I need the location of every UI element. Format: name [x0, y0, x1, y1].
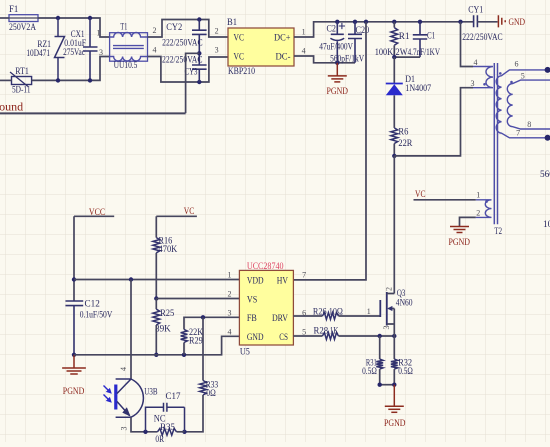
svg-text:1: 1 — [302, 27, 306, 36]
svg-text:CY2: CY2 — [166, 23, 182, 33]
capacitor CY3 — [192, 53, 207, 82]
svg-text:C2: C2 — [327, 24, 337, 34]
svg-text:4: 4 — [474, 58, 478, 67]
node R29 bottom on rail — [182, 353, 186, 357]
node R31 bottom — [378, 383, 382, 387]
svg-text:4: 4 — [119, 367, 128, 371]
svg-text:10D471: 10D471 — [26, 49, 50, 59]
svg-text:VC: VC — [234, 33, 245, 43]
power symbol PGND under T2 aux — [450, 226, 469, 228]
svg-text:GND: GND — [509, 18, 526, 28]
svg-text:UU10.5: UU10.5 — [114, 61, 138, 71]
svg-text:HV: HV — [277, 276, 288, 286]
svg-text:DC-: DC- — [276, 52, 291, 62]
wire opto collector riser — [130, 280, 132, 380]
svg-text:R26: R26 — [313, 308, 327, 318]
svg-text:CY1: CY1 — [468, 5, 483, 15]
wire VC stub — [156, 215, 197, 217]
resistor R26 — [322, 313, 338, 320]
wire T2 pin3 to R6 junction and Q3 drain — [394, 88, 473, 156]
svg-text:R6: R6 — [398, 128, 408, 138]
svg-text:C12: C12 — [85, 300, 101, 310]
capacitor C2 electrolytic — [331, 22, 344, 35]
svg-text:3: 3 — [215, 46, 219, 55]
svg-text:560: 560 — [540, 170, 550, 180]
svg-text:470K: 470K — [159, 245, 178, 255]
bridge rectifier B1 — [228, 28, 294, 66]
svg-text:2: 2 — [215, 27, 219, 36]
wire F1 to CX1/T1 — [38, 18, 110, 37]
svg-text:0.1uF/50V: 0.1uF/50V — [80, 310, 113, 320]
node C20 top on rail — [353, 20, 357, 24]
svg-text:0R: 0R — [155, 435, 164, 442]
capacitor C17 — [146, 403, 185, 432]
wire midpoint to earth line — [186, 53, 200, 113]
capacitor CY2 — [192, 20, 207, 54]
node CY3 bottom junction — [197, 80, 201, 84]
power symbol PGND under C2 — [336, 63, 338, 76]
svg-text:DC+: DC+ — [274, 33, 291, 43]
svg-text:PGND: PGND — [63, 387, 85, 397]
capacitor C1 — [413, 22, 427, 57]
node T2 pin4 riser on rail — [458, 20, 462, 24]
fuse F1 — [9, 15, 38, 22]
capacitor C20 — [348, 22, 362, 63]
wire VC to T2 pin1 — [414, 199, 476, 201]
svg-text:U3B: U3B — [144, 388, 157, 398]
wire R25 to gnd rail — [155, 325, 157, 355]
svg-text:0.5Ω: 0.5Ω — [362, 367, 377, 377]
svg-text:VC: VC — [234, 52, 245, 62]
resistor R35 — [158, 428, 177, 435]
wire Ground line — [0, 112, 186, 114]
wire T2 pin2 to PGND — [460, 217, 476, 226]
svg-text:FB: FB — [247, 314, 257, 324]
wire FB pin wire — [184, 317, 239, 329]
varistor RZ1 — [55, 18, 65, 80]
svg-text:222/250VAC: 222/250VAC — [162, 38, 203, 48]
node R6/T2pin3/drain junction — [392, 154, 396, 158]
wire R16 to VS junction — [155, 253, 157, 299]
svg-text:222/250VAC: 222/250VAC — [162, 56, 203, 66]
svg-text:C20: C20 — [356, 26, 370, 36]
wire junction to D1 cathode — [393, 57, 395, 83]
node C17 left riser — [143, 430, 147, 434]
T2 primary winding pins 4-3 — [473, 67, 493, 88]
node VS junction — [154, 296, 158, 300]
svg-text:GND: GND — [247, 333, 264, 343]
power symbol PGND under R32 — [393, 385, 395, 407]
svg-text:CS: CS — [279, 333, 288, 343]
svg-text:8: 8 — [527, 120, 531, 129]
svg-text:Ground: Ground — [0, 100, 23, 114]
svg-text:T1: T1 — [120, 23, 127, 33]
svg-text:PGND: PGND — [449, 238, 471, 248]
svg-text:VC: VC — [184, 207, 195, 217]
svg-text:4: 4 — [228, 327, 232, 336]
svg-text:R28: R28 — [314, 327, 329, 337]
svg-text:VS: VS — [247, 295, 257, 305]
svg-text:R29: R29 — [189, 337, 203, 347]
IC U5 UCC28740 body — [239, 270, 293, 345]
T2 aux winding pins 1-2 — [476, 200, 492, 218]
svg-text:R1: R1 — [399, 32, 410, 42]
optocoupler U3B phototransistor — [114, 385, 117, 410]
wire AC line left into F1 — [0, 17, 9, 19]
thermistor RT1 — [12, 77, 32, 85]
polarity dot T2 secondary inner — [510, 81, 513, 84]
capacitor C12 — [66, 301, 84, 355]
svg-text:1: 1 — [228, 271, 232, 280]
resistor R1 — [393, 22, 395, 28]
svg-text:47uF/400V: 47uF/400V — [319, 43, 353, 53]
common-mode choke T1 — [110, 33, 148, 62]
svg-text:3: 3 — [382, 326, 391, 330]
wire VCC stub — [74, 215, 114, 217]
wire opto emitter to C17/R35 net — [131, 417, 158, 432]
svg-text:7: 7 — [516, 128, 520, 137]
wire R28 to source node — [339, 335, 395, 337]
svg-text:T2: T2 — [494, 227, 502, 237]
node R32 bottom / pgnd stem — [392, 383, 396, 387]
svg-text:R25: R25 — [160, 309, 175, 319]
node FB/R33 junction — [201, 315, 205, 319]
svg-text:222/250VAC: 222/250VAC — [462, 33, 503, 43]
wire VCC riser to C12 — [73, 216, 75, 301]
node C12 bottom on gnd rail — [72, 353, 76, 357]
svg-text:KBP210: KBP210 — [228, 67, 255, 77]
wire HV riser from rail to UCC HV pin — [293, 22, 366, 280]
node junction CX1 top — [88, 16, 92, 20]
node R31 top — [378, 334, 382, 338]
wire CS to R28 — [293, 335, 322, 337]
svg-text:PGND: PGND — [384, 419, 406, 429]
capacitor CY1 — [474, 15, 478, 27]
capacitor CX1 — [83, 18, 98, 80]
node L1 junction at RZ1 top — [56, 16, 60, 20]
light arrow 2 into U3B — [104, 395, 111, 402]
svg-text:7: 7 — [302, 271, 306, 280]
resistor R16 — [153, 238, 160, 253]
wire R31/R32 bottom — [380, 384, 395, 386]
svg-text:R35: R35 — [160, 423, 175, 433]
wire R6 to T2/Q3 junction — [393, 144, 395, 156]
node C17 right riser — [182, 430, 186, 434]
wire R1 bottom to C1 bottom — [394, 56, 420, 58]
wire AC neutral left into RT1 — [0, 79, 12, 81]
wire RT1 to CX1 bottom and T1 pin3 — [32, 57, 110, 81]
diode D1 — [386, 83, 403, 85]
wire VS pin to junction — [156, 298, 239, 300]
svg-text:RT1: RT1 — [15, 67, 29, 77]
node opto collector branch — [129, 277, 133, 281]
node C2 bottom junction — [335, 61, 339, 65]
svg-text:DRV: DRV — [272, 314, 288, 324]
resistor R31 — [379, 336, 381, 359]
node wire end pin7 — [545, 135, 550, 141]
light arrow 1 into U3B — [104, 386, 111, 393]
svg-text:4N60: 4N60 — [396, 299, 413, 309]
node VDD/VCC junction — [72, 277, 76, 281]
svg-text:1: 1 — [476, 190, 480, 199]
wire R35 right — [177, 431, 185, 433]
node C1 top on rail — [418, 20, 422, 24]
svg-text:1K: 1K — [330, 327, 339, 337]
node C2 top on rail — [335, 20, 339, 24]
svg-text:VDD: VDD — [247, 276, 264, 286]
resistor R28 — [322, 333, 338, 340]
svg-text:3: 3 — [228, 308, 232, 317]
svg-text:275Vac: 275Vac — [63, 48, 85, 58]
wire gnd rail to GND pin — [74, 336, 239, 355]
svg-text:6: 6 — [515, 60, 519, 69]
wire T1 pin2 to B1 pin2 — [148, 20, 229, 38]
svg-text:C1: C1 — [427, 32, 435, 42]
svg-text:UCC28740: UCC28740 — [247, 262, 284, 272]
svg-text:1: 1 — [367, 307, 371, 316]
node R1/C1/D1 junction — [392, 55, 396, 59]
svg-text:5: 5 — [302, 327, 306, 336]
node HV riser on rail — [364, 20, 368, 24]
resistor R33 — [200, 381, 207, 396]
svg-text:F1: F1 — [9, 5, 19, 15]
wire CY1 to GND symbol — [477, 21, 497, 23]
svg-text:B1: B1 — [227, 18, 237, 28]
polarity dot T2 aux — [485, 200, 488, 203]
svg-text:2: 2 — [385, 287, 394, 291]
node wire end pin6 — [545, 67, 550, 73]
wire B1 DC+ to HV rail — [294, 22, 474, 37]
svg-text:250V2A: 250V2A — [9, 23, 36, 33]
svg-text:5D-11: 5D-11 — [12, 86, 31, 96]
svg-text:22R: 22R — [398, 139, 413, 149]
node Q3 source / R32 top — [392, 334, 396, 338]
wire D1 anode to R6 — [393, 95, 395, 128]
wire VDD pin wire — [74, 279, 239, 281]
svg-text:100: 100 — [543, 220, 550, 230]
svg-text:0.5Ω: 0.5Ω — [398, 367, 413, 377]
svg-text:1N4007: 1N4007 — [405, 84, 431, 94]
T2 secondary winding pins 5-8 — [507, 80, 550, 129]
wire T2 pin4 to rail — [461, 22, 474, 67]
svg-text:3: 3 — [99, 48, 103, 57]
wire FB junction down to R33 — [202, 317, 204, 380]
svg-text:2: 2 — [476, 208, 480, 217]
wire T1 pin4 to B1 pin3 — [148, 57, 229, 83]
svg-text:U5: U5 — [240, 348, 250, 358]
svg-text:4: 4 — [302, 46, 306, 55]
wire DRV to R26 — [293, 315, 322, 317]
node CY2-CY3 midpoint — [197, 51, 201, 55]
mosfet Q3 — [379, 300, 381, 317]
resistor R6 — [391, 128, 398, 144]
transformer T2 core — [493, 63, 495, 224]
svg-text:4: 4 — [153, 45, 157, 54]
svg-text:3: 3 — [120, 427, 129, 431]
svg-text:560pF/1kV: 560pF/1kV — [330, 54, 364, 64]
power symbol PGND under C12 — [73, 355, 75, 368]
wire R29 to rail — [183, 343, 185, 355]
svg-text:VC: VC — [415, 190, 426, 200]
power symbol GND (earth, rotated) — [498, 15, 505, 27]
node R25 bottom on rail — [154, 353, 158, 357]
svg-text:CY3: CY3 — [185, 67, 198, 77]
wire VC to R16 — [155, 216, 157, 237]
svg-text:1: 1 — [97, 29, 101, 38]
node R1 top on rail — [392, 20, 396, 24]
svg-text:2: 2 — [228, 290, 232, 299]
node junction RZ1 bottom — [56, 78, 60, 82]
wire R33 to C17 net — [185, 395, 204, 432]
resistor R32 — [393, 336, 395, 359]
wire R26 to Q3 gate — [339, 315, 381, 317]
svg-text:89K: 89K — [155, 325, 171, 335]
svg-text:C17: C17 — [166, 392, 181, 402]
resistor R25 — [155, 299, 157, 310]
resistor R29 — [181, 329, 188, 342]
wire B1 DC- to PGND bus — [294, 56, 355, 63]
node CY2 top junction — [197, 17, 201, 21]
T2 secondary winding pins 6-7 — [496, 70, 547, 138]
svg-text:PGND: PGND — [327, 87, 349, 97]
node junction CX1 bottom — [88, 78, 92, 82]
svg-text:2: 2 — [153, 26, 157, 35]
svg-text:0Ω: 0Ω — [206, 389, 216, 399]
polarity dot T2 primary — [483, 83, 486, 86]
polarity dot T2 secondary outer — [499, 72, 502, 75]
svg-text:5: 5 — [521, 71, 525, 80]
